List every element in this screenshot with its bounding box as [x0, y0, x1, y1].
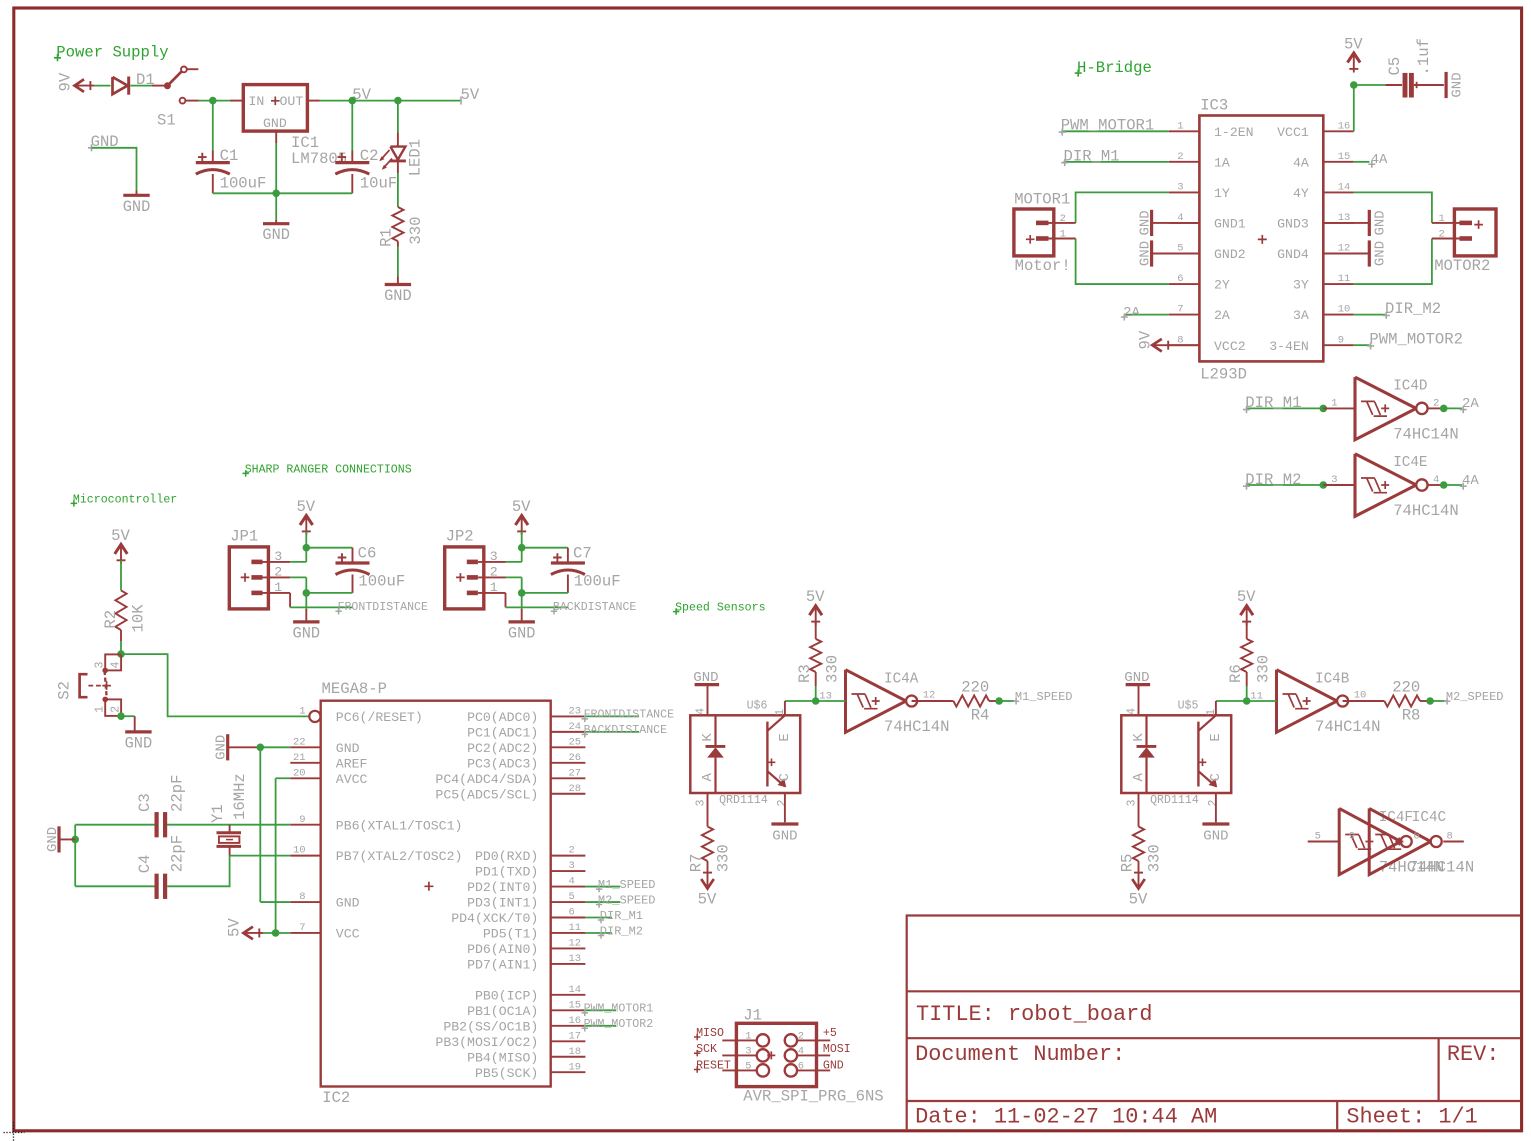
net label DIR_M1 wire IC2 pin6	[585, 909, 643, 923]
svg-text:PC2(ADC2): PC2(ADC2)	[467, 741, 538, 756]
svg-text:U$6: U$6	[747, 699, 768, 712]
svg-text:PB7(XTAL2/TOSC2): PB7(XTAL2/TOSC2)	[336, 849, 463, 864]
svg-text:4: 4	[694, 708, 707, 715]
svg-text:C1: C1	[220, 147, 239, 165]
resistor R3 330	[796, 639, 842, 683]
svg-text:MOSI: MOSI	[823, 1043, 851, 1056]
capacitor C5 .1uf	[1386, 38, 1444, 97]
svg-text:PB6(XTAL1/TOSC1): PB6(XTAL1/TOSC1)	[336, 818, 463, 833]
svg-text:4: 4	[569, 876, 575, 888]
wire junction to IC4A input	[816, 690, 846, 702]
svg-text:RESET: RESET	[696, 1059, 731, 1072]
svg-text:3: 3	[93, 662, 106, 669]
svg-text:BACKDISTANCE: BACKDISTANCE	[553, 601, 637, 614]
svg-text:GND: GND	[693, 670, 718, 686]
svg-text:25: 25	[569, 736, 582, 748]
supply 5V arrow JP1	[300, 516, 313, 526]
svg-text:S2: S2	[56, 681, 74, 700]
inverter IC4E	[1355, 454, 1459, 521]
net label BACKDISTANCE wire IC2 pin24	[582, 724, 668, 737]
svg-text:DIR_M1: DIR_M1	[600, 909, 643, 923]
ground symbol U$6 pin2	[771, 793, 798, 844]
svg-text:5V: 5V	[806, 588, 825, 606]
svg-text:MOTOR1: MOTOR1	[1014, 190, 1070, 208]
svg-text:A: A	[1131, 773, 1147, 782]
svg-text:3: 3	[1177, 182, 1183, 194]
svg-text:VCC2: VCC2	[1214, 339, 1246, 354]
svg-text:BACKDISTANCE: BACKDISTANCE	[584, 724, 668, 737]
svg-text:GND: GND	[384, 287, 412, 305]
svg-text:K: K	[700, 733, 716, 742]
svg-text:VCC1: VCC1	[1277, 125, 1309, 140]
svg-text:330: 330	[1146, 844, 1164, 872]
svg-text:C3: C3	[136, 793, 154, 812]
junction node pin22 gnd	[257, 744, 265, 752]
net label MISO J1	[694, 1027, 724, 1040]
svg-text:S1: S1	[157, 112, 176, 130]
title block frame	[907, 916, 1520, 1130]
svg-text:3-4EN: 3-4EN	[1269, 339, 1309, 354]
supply 5V arrow R5	[1129, 861, 1148, 909]
svg-text:6: 6	[1177, 273, 1183, 285]
net label +5 J1	[823, 1027, 837, 1040]
svg-text:GND: GND	[1449, 72, 1465, 97]
svg-text:GND: GND	[123, 198, 151, 216]
svg-text:SCK: SCK	[696, 1043, 717, 1056]
svg-text:330: 330	[407, 217, 425, 245]
svg-text:SHARP RANGER CONNECTIONS: SHARP RANGER CONNECTIONS	[245, 463, 412, 476]
svg-text:C4: C4	[136, 855, 154, 874]
svg-text:U$5: U$5	[1178, 699, 1199, 712]
capacitor C4 22pF	[136, 835, 186, 899]
ground symbol JP2	[508, 609, 536, 643]
svg-text:PD1(TXD): PD1(TXD)	[475, 865, 538, 880]
svg-text:Motor!: Motor!	[1015, 257, 1071, 275]
net label M2_SPEED wire IC2 pin5	[585, 893, 655, 907]
svg-text:100uF: 100uF	[358, 572, 405, 590]
svg-text:+5: +5	[823, 1027, 837, 1040]
svg-text:C7: C7	[573, 544, 592, 562]
ground symbol U$5 pin2	[1202, 793, 1229, 844]
junction node U$5 out	[1243, 697, 1251, 705]
svg-text:GND: GND	[1373, 210, 1389, 235]
junction node C5	[1350, 81, 1358, 89]
net label DIR_M2 wire IC2 pin11	[585, 924, 643, 938]
wire 4Y to MOTOR2 pin1	[1354, 192, 1432, 223]
net label RESET J1	[694, 1059, 731, 1072]
wire reset net S2 to IC2 pin1	[121, 654, 309, 716]
ground symbol JP1	[293, 609, 321, 643]
IC IC2 MEGA8-P body	[321, 680, 551, 1107]
svg-text:1A: 1A	[1214, 155, 1230, 170]
svg-text:6: 6	[1413, 830, 1419, 842]
svg-text:PD6(AIN0): PD6(AIN0)	[467, 942, 538, 957]
net label 2A wire pin7	[1121, 305, 1169, 321]
svg-text:10: 10	[1338, 304, 1351, 316]
svg-text:74HC14N: 74HC14N	[1409, 858, 1475, 876]
ground symbol IC2 pin22	[214, 734, 261, 760]
svg-text:2: 2	[1060, 213, 1066, 225]
svg-text:3: 3	[490, 549, 498, 564]
svg-text:5: 5	[1315, 830, 1321, 842]
svg-text:.1uf: .1uf	[1415, 38, 1433, 75]
svg-text:H-Bridge: H-Bridge	[1077, 59, 1152, 77]
junction node S2 top	[117, 650, 125, 658]
resistor R4 220 output	[912, 678, 1000, 724]
svg-text:9: 9	[1349, 830, 1355, 842]
ground symbol power supply	[262, 220, 290, 245]
svg-text:M2_SPEED: M2_SPEED	[1446, 690, 1504, 704]
svg-text:C5: C5	[1386, 57, 1404, 76]
junction node M1_SPEED	[995, 697, 1003, 705]
svg-text:GND: GND	[336, 896, 360, 911]
wire 9V to D1	[94, 85, 111, 87]
svg-text:14: 14	[1338, 182, 1351, 194]
svg-text:330: 330	[1255, 655, 1273, 683]
svg-text:E: E	[1208, 733, 1224, 741]
svg-text:PD0(RXD): PD0(RXD)	[475, 849, 538, 864]
svg-text:GND: GND	[823, 1059, 844, 1072]
net label M1_SPEED wire IC2 pin4	[585, 878, 655, 892]
svg-text:3: 3	[274, 549, 282, 564]
svg-text:10: 10	[1354, 690, 1367, 702]
wire LED1 top	[397, 101, 399, 133]
LED LED1	[379, 133, 424, 177]
regulator IC1 LM7805	[243, 85, 347, 169]
junction node M2_SPEED	[1426, 697, 1434, 705]
svg-text:19: 19	[569, 1061, 582, 1073]
supply 5V arrow R6	[1240, 606, 1253, 616]
supply 5V arrow R3	[809, 606, 822, 616]
net label FRONTDISTANCE wire IC2 pin23	[582, 709, 674, 722]
svg-text:100uF: 100uF	[574, 572, 621, 590]
wire IC1 OUT 5V rail	[307, 100, 460, 102]
svg-text:GND: GND	[508, 624, 536, 642]
svg-text:Document Number:: Document Number:	[915, 1042, 1125, 1067]
svg-text:18: 18	[569, 1046, 582, 1058]
wire gnd net pin22 to pin8	[260, 747, 290, 902]
diode D1	[113, 71, 155, 95]
svg-text:Microcontroller: Microcontroller	[73, 493, 177, 506]
svg-text:FRONTDISTANCE: FRONTDISTANCE	[584, 709, 674, 722]
svg-text:4Y: 4Y	[1293, 186, 1309, 201]
svg-text:5V: 5V	[512, 498, 531, 516]
svg-text:9V: 9V	[57, 72, 75, 91]
net label BACKDISTANCE wire JP2 pin1	[506, 593, 637, 615]
svg-text:R6: R6	[1227, 664, 1245, 683]
svg-text:8: 8	[1447, 830, 1453, 842]
svg-text:GND: GND	[1124, 670, 1149, 686]
junction node LED1 top	[394, 97, 402, 105]
svg-text:GND3: GND3	[1277, 217, 1309, 232]
svg-text:3: 3	[569, 860, 575, 872]
svg-text:4: 4	[798, 1046, 804, 1058]
svg-text:16: 16	[1338, 120, 1351, 132]
svg-text:2: 2	[569, 845, 575, 857]
svg-text:GND: GND	[125, 734, 153, 752]
junction node S2 bottom	[117, 712, 125, 720]
svg-text:2A: 2A	[1123, 305, 1140, 321]
ground symbol R1	[384, 277, 412, 306]
wire GND bus down	[275, 193, 277, 219]
svg-text:R4: R4	[971, 706, 990, 724]
svg-text:IN: IN	[249, 94, 265, 109]
svg-text:2: 2	[109, 706, 122, 713]
resistor R2 10K	[102, 590, 148, 632]
resistor R5 330	[1119, 793, 1164, 872]
svg-text:4A: 4A	[1371, 152, 1388, 168]
inverter IC4C unused	[1369, 808, 1474, 876]
svg-text:PWM_MOTOR2: PWM_MOTOR2	[1369, 331, 1463, 349]
svg-text:1-2EN: 1-2EN	[1214, 125, 1254, 140]
svg-text:IC3: IC3	[1200, 97, 1228, 115]
wire R6 to junction	[1246, 672, 1248, 701]
svg-text:Y1: Y1	[209, 804, 227, 823]
svg-text:3: 3	[1331, 474, 1337, 486]
svg-text:PD2(INT0): PD2(INT0)	[467, 880, 538, 895]
ground symbol GND1 pin4	[1137, 210, 1199, 236]
wire VCC1 to 5V node	[1353, 85, 1355, 131]
wire S2 to ground	[121, 715, 135, 717]
svg-text:GND: GND	[1203, 828, 1228, 844]
svg-text:5V: 5V	[1237, 588, 1256, 606]
svg-text:VCC: VCC	[336, 927, 360, 942]
wire C2 top	[351, 101, 353, 151]
inverter IC4B	[1277, 670, 1381, 736]
svg-text:GND: GND	[214, 735, 230, 760]
wire xtal2 to C4	[167, 856, 229, 887]
svg-text:GND: GND	[263, 116, 287, 131]
svg-text:IC2: IC2	[322, 1089, 350, 1107]
wire LED1 to R1	[397, 173, 399, 207]
svg-text:TITLE: robot_board: TITLE: robot_board	[916, 1002, 1152, 1027]
resistor R6 330	[1227, 639, 1273, 683]
ground symbol U$6 pin4	[693, 670, 719, 715]
svg-text:PB0(ICP): PB0(ICP)	[475, 988, 538, 1003]
IC4F IC4C pin stubs	[1308, 830, 1464, 842]
svg-text:R3: R3	[796, 664, 814, 683]
svg-text:11: 11	[1250, 690, 1263, 702]
svg-text:2: 2	[776, 800, 789, 807]
svg-text:1: 1	[299, 706, 305, 718]
section title SHARP RANGER CONNECTIONS	[243, 463, 412, 476]
svg-text:2: 2	[798, 1031, 804, 1043]
svg-text:Sheet: 1/1: Sheet: 1/1	[1346, 1105, 1477, 1130]
svg-text:PC6(/RESET): PC6(/RESET)	[336, 710, 423, 725]
IC2 left pins	[290, 706, 462, 942]
svg-text:4: 4	[109, 662, 122, 669]
connector JP2	[445, 528, 506, 609]
svg-text:74HC14N: 74HC14N	[1393, 502, 1459, 520]
svg-text:5V: 5V	[1344, 36, 1363, 54]
svg-text:1: 1	[490, 580, 498, 595]
svg-text:2A: 2A	[1214, 308, 1230, 323]
svg-text:15: 15	[569, 999, 582, 1011]
svg-text:Speed Sensors: Speed Sensors	[675, 602, 765, 615]
wire 5V to R2	[120, 560, 122, 590]
net label DIR_M2 wire pin10	[1354, 300, 1441, 319]
svg-text:4: 4	[1125, 708, 1138, 715]
svg-text:GND: GND	[293, 624, 321, 642]
wire 5V node to C5	[1354, 84, 1402, 86]
wire R1 to ground	[397, 241, 399, 276]
inverter IC4F unused	[1339, 808, 1444, 876]
svg-text:LED1: LED1	[407, 139, 425, 176]
wire 5V to R6	[1246, 622, 1248, 639]
svg-text:DIR_M2: DIR_M2	[1245, 471, 1301, 489]
net label 4A wire pin15	[1354, 152, 1388, 168]
connector J1 AVR_SPI_PRG_6NS	[722, 1007, 883, 1106]
svg-text:GND2: GND2	[1214, 247, 1246, 262]
supply 5V arrow IC2 pin7	[226, 918, 263, 940]
wire JP1 pin2 gnd net	[290, 577, 352, 609]
svg-text:PB4(MISO): PB4(MISO)	[467, 1050, 538, 1065]
svg-text:1: 1	[774, 709, 787, 716]
section title Speed Sensors	[673, 602, 766, 615]
svg-text:330: 330	[824, 655, 842, 683]
junction node C2 top	[349, 97, 357, 105]
section title Microcontroller	[71, 493, 178, 506]
svg-text:M1_SPEED: M1_SPEED	[598, 878, 656, 892]
svg-text:3Y: 3Y	[1293, 278, 1309, 293]
optical sensor U$6 QRD1114	[690, 699, 800, 807]
wire R3 to junction	[815, 672, 817, 701]
ground symbol crystal	[45, 826, 75, 852]
supply 9V arrow	[57, 72, 95, 92]
svg-text:100uF: 100uF	[220, 175, 267, 193]
svg-text:PC3(ADC3): PC3(ADC3)	[467, 756, 538, 771]
svg-text:16MHz: 16MHz	[231, 773, 249, 820]
svg-text:2: 2	[490, 565, 498, 580]
svg-text:10uF: 10uF	[360, 175, 397, 193]
svg-text:A: A	[700, 773, 716, 782]
svg-text:FRONTDISTANCE: FRONTDISTANCE	[338, 601, 428, 614]
svg-text:7: 7	[1177, 304, 1183, 316]
svg-text:6: 6	[569, 907, 575, 919]
svg-text:1: 1	[93, 706, 106, 713]
svg-text:R7: R7	[688, 854, 706, 873]
svg-text:C: C	[777, 773, 793, 781]
svg-text:10: 10	[293, 845, 306, 857]
optical sensor U$5 QRD1114	[1121, 699, 1231, 807]
svg-text:GND: GND	[45, 827, 61, 852]
sheet origin marker	[4, 1122, 25, 1141]
svg-text:15: 15	[1338, 151, 1351, 163]
svg-text:1Y: 1Y	[1214, 186, 1230, 201]
svg-text:74HC14N: 74HC14N	[884, 718, 950, 736]
svg-text:PD5(T1): PD5(T1)	[483, 927, 538, 942]
svg-text:24: 24	[569, 721, 582, 733]
GND label net stub left	[88, 133, 137, 190]
junction node GND bus	[272, 190, 280, 198]
svg-text:17: 17	[569, 1030, 582, 1042]
net label DIR_M1 wire pin2	[1061, 147, 1169, 166]
svg-text:DIR_M2: DIR_M2	[1385, 300, 1441, 318]
svg-text:1: 1	[1331, 398, 1337, 410]
net label 2A wire IC4D output	[1428, 396, 1479, 413]
resistor R1 330	[378, 207, 425, 247]
supply 9V arrow pin8	[1137, 330, 1200, 351]
resistor R7 330	[688, 793, 733, 872]
supply 5V arrow R2	[115, 544, 128, 554]
svg-text:1: 1	[1177, 120, 1183, 132]
supply 5V arrow C5	[1344, 36, 1363, 73]
svg-text:DIR_M2: DIR_M2	[600, 924, 643, 938]
svg-text:1: 1	[1060, 229, 1066, 241]
net label M1_SPEED	[999, 690, 1072, 704]
capacitor C1	[196, 147, 267, 193]
wire R2 to S2 node	[120, 630, 122, 654]
svg-text:5: 5	[569, 891, 575, 903]
svg-text:AVR_SPI_PRG_6NS: AVR_SPI_PRG_6NS	[743, 1088, 883, 1106]
svg-text:PC4(ADC4/SDA): PC4(ADC4/SDA)	[435, 772, 538, 787]
wire 1Y to MOTOR1 pin2	[1076, 192, 1169, 223]
svg-text:4: 4	[1433, 474, 1439, 486]
wire 5V to R3	[815, 622, 817, 639]
svg-text:5V: 5V	[1129, 891, 1148, 909]
svg-text:74HC14N: 74HC14N	[1315, 718, 1381, 736]
connector MOTOR2	[1432, 209, 1496, 275]
svg-text:JP2: JP2	[446, 528, 474, 546]
svg-text:16: 16	[569, 1015, 582, 1027]
wire junction to IC4B input	[1247, 690, 1277, 702]
svg-text:PB1(OC1A): PB1(OC1A)	[467, 1004, 538, 1019]
svg-text:27: 27	[569, 767, 582, 779]
svg-text:QRD1114: QRD1114	[719, 794, 768, 807]
svg-text:GND: GND	[1373, 241, 1389, 266]
svg-text:PD7(AIN1): PD7(AIN1)	[467, 958, 538, 973]
svg-text:PC0(ADC0): PC0(ADC0)	[467, 710, 538, 725]
svg-text:GND1: GND1	[1214, 217, 1246, 232]
wire xtal2 net pin10	[230, 855, 291, 857]
capacitor C2	[335, 147, 397, 193]
svg-text:R8: R8	[1402, 706, 1421, 724]
wire junction to U$6 pin1	[785, 701, 816, 715]
svg-text:9: 9	[1338, 334, 1344, 346]
svg-text:JP1: JP1	[230, 528, 258, 546]
svg-text:GND: GND	[336, 741, 360, 756]
svg-text:13: 13	[569, 953, 582, 965]
svg-text:1: 1	[745, 1031, 751, 1043]
svg-text:2: 2	[1207, 800, 1220, 807]
inverter IC4A	[846, 670, 950, 736]
svg-text:Date: 11-02-27 10:44 AM: Date: 11-02-27 10:44 AM	[915, 1105, 1217, 1130]
ground symbol C5	[1444, 72, 1447, 98]
net label DIR_M1 wire IC4D input	[1243, 394, 1355, 413]
svg-text:R2: R2	[102, 610, 120, 629]
svg-text:28: 28	[569, 783, 582, 795]
svg-text:1: 1	[1205, 709, 1218, 716]
svg-text:QRD1114: QRD1114	[1150, 794, 1199, 807]
svg-text:PWM_MOTOR1: PWM_MOTOR1	[1061, 117, 1155, 135]
svg-text:5: 5	[745, 1061, 751, 1073]
svg-text:5V: 5V	[226, 918, 244, 937]
net label SCK J1	[694, 1043, 717, 1056]
IC IC3 L293D body	[1169, 97, 1354, 384]
wire JP2 pin2 gnd net	[506, 577, 568, 609]
svg-text:3A: 3A	[1293, 308, 1309, 323]
wire C3 C4 left gnd loop	[75, 825, 154, 887]
svg-text:LM7805: LM7805	[291, 150, 347, 168]
resistor R8 220 output	[1343, 678, 1431, 724]
svg-text:9V: 9V	[1137, 330, 1155, 349]
wire junction to U$5 pin1	[1216, 701, 1247, 715]
wire S1 to IC1 IN	[186, 100, 244, 102]
wire C1 top	[212, 101, 214, 151]
svg-text:12: 12	[923, 690, 936, 702]
IC2 right pins	[435, 706, 585, 1081]
svg-text:R5: R5	[1119, 854, 1137, 873]
